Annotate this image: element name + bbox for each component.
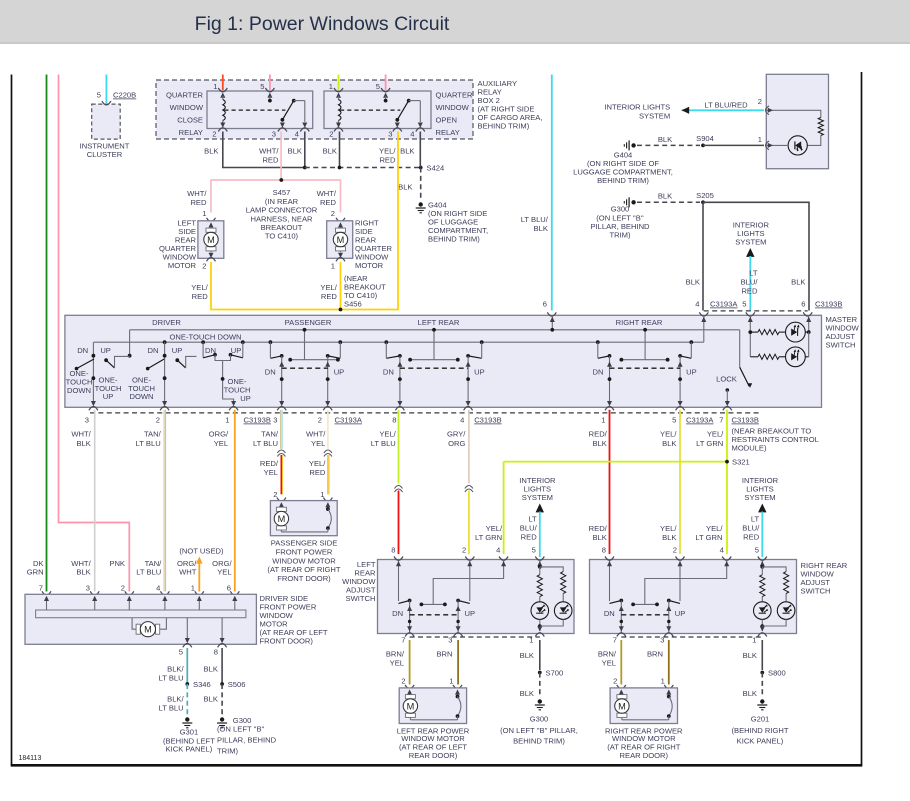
svg-text:LT BLU: LT BLU bbox=[136, 568, 161, 577]
svg-text:1: 1 bbox=[225, 416, 229, 425]
svg-text:WINDOW MOTOR: WINDOW MOTOR bbox=[612, 734, 676, 743]
svg-text:(IN REAR: (IN REAR bbox=[265, 197, 299, 206]
svg-text:MOTOR: MOTOR bbox=[355, 261, 384, 270]
svg-text:DN: DN bbox=[148, 346, 159, 355]
svg-text:3: 3 bbox=[448, 636, 452, 645]
svg-text:BLK: BLK bbox=[662, 439, 676, 448]
svg-text:3: 3 bbox=[388, 130, 392, 139]
svg-text:BLK/: BLK/ bbox=[167, 665, 184, 674]
svg-text:2: 2 bbox=[121, 584, 125, 593]
svg-text:S904: S904 bbox=[696, 134, 714, 143]
svg-text:BEHIND TRIM): BEHIND TRIM) bbox=[597, 176, 649, 185]
svg-text:MOTOR: MOTOR bbox=[168, 261, 197, 270]
svg-text:BRN/: BRN/ bbox=[598, 650, 617, 659]
svg-text:BLK: BLK bbox=[76, 568, 90, 577]
svg-text:(NOT USED): (NOT USED) bbox=[179, 547, 224, 556]
svg-text:3: 3 bbox=[273, 416, 277, 425]
svg-text:8: 8 bbox=[214, 647, 218, 656]
svg-text:2: 2 bbox=[331, 209, 335, 218]
svg-text:DN: DN bbox=[593, 368, 604, 377]
svg-text:1: 1 bbox=[661, 677, 665, 686]
svg-text:C3193B: C3193B bbox=[244, 416, 271, 425]
svg-text:WHT/: WHT/ bbox=[187, 189, 207, 198]
svg-text:LT: LT bbox=[751, 515, 760, 524]
svg-text:LT BLU: LT BLU bbox=[371, 439, 396, 448]
svg-text:BREAKOUT: BREAKOUT bbox=[261, 223, 303, 232]
svg-text:UP: UP bbox=[465, 609, 476, 618]
svg-text:BLK: BLK bbox=[686, 278, 700, 287]
svg-text:BLK: BLK bbox=[76, 439, 90, 448]
svg-text:CLUSTER: CLUSTER bbox=[87, 150, 123, 159]
svg-text:GRY/: GRY/ bbox=[447, 430, 466, 439]
svg-text:WHT/: WHT/ bbox=[71, 430, 91, 439]
svg-text:LT GRN: LT GRN bbox=[475, 533, 502, 542]
svg-text:LT BLU/RED: LT BLU/RED bbox=[704, 101, 748, 110]
svg-text:YEL/: YEL/ bbox=[660, 430, 677, 439]
svg-text:5: 5 bbox=[97, 91, 101, 100]
svg-text:DOWN: DOWN bbox=[67, 386, 91, 395]
svg-text:3: 3 bbox=[85, 416, 89, 425]
svg-text:1: 1 bbox=[601, 416, 605, 425]
svg-text:BLK: BLK bbox=[658, 135, 672, 144]
svg-text:BEHIND TRIM): BEHIND TRIM) bbox=[513, 737, 565, 746]
svg-text:C3193A: C3193A bbox=[710, 300, 738, 309]
svg-text:2: 2 bbox=[401, 677, 405, 686]
svg-text:RED/: RED/ bbox=[260, 459, 279, 468]
svg-text:YEL/: YEL/ bbox=[706, 524, 723, 533]
svg-text:2: 2 bbox=[202, 262, 206, 271]
svg-text:WHT/: WHT/ bbox=[259, 147, 279, 156]
svg-text:REAR DOOR): REAR DOOR) bbox=[409, 751, 458, 760]
svg-text:1: 1 bbox=[191, 584, 195, 593]
svg-text:DN: DN bbox=[205, 346, 216, 355]
svg-text:KICK PANEL): KICK PANEL) bbox=[737, 737, 784, 746]
svg-text:YEL/: YEL/ bbox=[379, 147, 396, 156]
svg-text:RELAY: RELAY bbox=[179, 128, 203, 137]
svg-text:DN: DN bbox=[265, 368, 276, 377]
svg-text:ORG/: ORG/ bbox=[209, 430, 229, 439]
svg-text:2: 2 bbox=[673, 546, 677, 555]
svg-text:5: 5 bbox=[260, 82, 264, 91]
svg-text:BLK: BLK bbox=[204, 147, 218, 156]
svg-text:4: 4 bbox=[410, 130, 414, 139]
svg-text:4: 4 bbox=[156, 584, 160, 593]
svg-text:FRONT DOOR): FRONT DOOR) bbox=[277, 574, 331, 583]
svg-text:BLK: BLK bbox=[520, 651, 534, 660]
svg-text:TRIM): TRIM) bbox=[217, 747, 239, 756]
svg-text:WHT/: WHT/ bbox=[306, 430, 326, 439]
svg-text:UP: UP bbox=[675, 609, 686, 618]
svg-text:BLK/: BLK/ bbox=[167, 695, 184, 704]
svg-text:2: 2 bbox=[758, 97, 762, 106]
svg-text:RED: RED bbox=[192, 292, 209, 301]
svg-text:YEL/: YEL/ bbox=[707, 430, 724, 439]
svg-text:WHT: WHT bbox=[179, 568, 197, 577]
svg-text:G201: G201 bbox=[751, 715, 770, 724]
svg-text:M: M bbox=[337, 235, 345, 245]
svg-text:LT GRN: LT GRN bbox=[695, 533, 722, 542]
svg-text:UP: UP bbox=[103, 392, 114, 401]
svg-text:YEL/: YEL/ bbox=[320, 283, 337, 292]
svg-text:LT BLU: LT BLU bbox=[159, 674, 184, 683]
svg-text:7: 7 bbox=[719, 416, 723, 425]
svg-text:7: 7 bbox=[613, 636, 617, 645]
svg-text:RED: RED bbox=[521, 533, 538, 542]
svg-text:S800: S800 bbox=[768, 669, 786, 678]
svg-text:BLK: BLK bbox=[592, 533, 606, 542]
svg-text:OPEN: OPEN bbox=[436, 116, 458, 125]
svg-text:PILLAR, BEHIND: PILLAR, BEHIND bbox=[217, 736, 277, 745]
svg-text:BLK: BLK bbox=[592, 439, 606, 448]
svg-text:BLK: BLK bbox=[534, 224, 548, 233]
svg-text:1: 1 bbox=[202, 209, 206, 218]
svg-text:YEL/: YEL/ bbox=[309, 459, 326, 468]
svg-text:BLK: BLK bbox=[791, 278, 805, 287]
svg-text:BLK: BLK bbox=[204, 695, 218, 704]
svg-text:1: 1 bbox=[449, 677, 453, 686]
svg-text:G301: G301 bbox=[180, 728, 199, 737]
svg-text:UP: UP bbox=[474, 368, 485, 377]
svg-text:8: 8 bbox=[602, 546, 606, 555]
svg-text:Fig 1: Power Windows Circuit: Fig 1: Power Windows Circuit bbox=[195, 13, 450, 35]
svg-text:FRONT POWER: FRONT POWER bbox=[276, 547, 333, 556]
svg-text:LT BLU/: LT BLU/ bbox=[521, 215, 549, 224]
svg-text:4: 4 bbox=[496, 546, 500, 555]
svg-text:BLK: BLK bbox=[520, 689, 534, 698]
svg-text:M: M bbox=[278, 514, 286, 524]
svg-text:4: 4 bbox=[720, 546, 724, 555]
svg-text:S456: S456 bbox=[344, 300, 362, 309]
svg-text:M: M bbox=[407, 701, 415, 711]
svg-text:M: M bbox=[144, 625, 152, 635]
svg-text:C3193B: C3193B bbox=[815, 300, 842, 309]
svg-text:6: 6 bbox=[801, 300, 805, 309]
svg-text:INTERIOR LIGHTS: INTERIOR LIGHTS bbox=[604, 103, 670, 112]
svg-text:7: 7 bbox=[401, 636, 405, 645]
svg-text:4: 4 bbox=[295, 130, 299, 139]
svg-text:5: 5 bbox=[672, 416, 676, 425]
svg-text:WINDOW: WINDOW bbox=[170, 103, 204, 112]
svg-text:RED: RED bbox=[379, 156, 396, 165]
svg-text:S506: S506 bbox=[228, 680, 246, 689]
svg-text:DN: DN bbox=[392, 609, 403, 618]
svg-text:YEL/: YEL/ bbox=[660, 524, 677, 533]
svg-text:UP: UP bbox=[172, 346, 183, 355]
svg-text:C220B: C220B bbox=[113, 91, 136, 100]
svg-text:YEL/: YEL/ bbox=[191, 283, 208, 292]
svg-text:YEL: YEL bbox=[264, 468, 278, 477]
svg-text:3: 3 bbox=[272, 130, 276, 139]
svg-text:1: 1 bbox=[752, 636, 756, 645]
svg-text:KICK PANEL): KICK PANEL) bbox=[166, 745, 213, 754]
svg-text:RELAY: RELAY bbox=[436, 128, 460, 137]
svg-text:YEL: YEL bbox=[214, 439, 228, 448]
svg-text:M: M bbox=[207, 235, 215, 245]
svg-text:WHT/: WHT/ bbox=[317, 189, 337, 198]
svg-text:C3193B: C3193B bbox=[732, 416, 759, 425]
svg-text:1: 1 bbox=[331, 262, 335, 271]
svg-text:2: 2 bbox=[156, 416, 160, 425]
svg-text:6: 6 bbox=[227, 584, 231, 593]
svg-text:DN: DN bbox=[383, 368, 394, 377]
svg-text:UP: UP bbox=[240, 394, 251, 403]
svg-text:RED/: RED/ bbox=[589, 524, 608, 533]
svg-text:UP: UP bbox=[686, 368, 697, 377]
svg-text:8: 8 bbox=[391, 546, 395, 555]
svg-text:DRIVER: DRIVER bbox=[152, 318, 181, 327]
svg-text:BLK: BLK bbox=[323, 147, 337, 156]
svg-text:(ON LEFT ''B'': (ON LEFT ''B'' bbox=[217, 725, 265, 734]
svg-text:SWITCH: SWITCH bbox=[826, 341, 856, 350]
svg-text:RED/: RED/ bbox=[589, 430, 608, 439]
svg-text:BRN: BRN bbox=[647, 650, 663, 659]
svg-text:DK: DK bbox=[33, 559, 44, 568]
svg-text:BLK: BLK bbox=[658, 192, 672, 201]
svg-text:2: 2 bbox=[613, 677, 617, 686]
svg-text:ORG/: ORG/ bbox=[212, 559, 232, 568]
svg-text:WHT/: WHT/ bbox=[71, 559, 91, 568]
svg-text:CLOSE: CLOSE bbox=[177, 116, 203, 125]
svg-text:S346: S346 bbox=[193, 680, 211, 689]
svg-text:S457: S457 bbox=[273, 188, 291, 197]
svg-text:BLU/: BLU/ bbox=[742, 524, 760, 533]
svg-text:(ON LEFT ''B'' PILLAR,: (ON LEFT ''B'' PILLAR, bbox=[500, 726, 578, 735]
svg-text:MODULE): MODULE) bbox=[732, 444, 767, 453]
svg-text:BLK: BLK bbox=[743, 689, 757, 698]
svg-text:5: 5 bbox=[532, 546, 536, 555]
svg-text:DN: DN bbox=[77, 346, 88, 355]
svg-text:ORG/: ORG/ bbox=[177, 559, 197, 568]
svg-text:LT GRN: LT GRN bbox=[696, 439, 723, 448]
svg-text:TRIM): TRIM) bbox=[609, 231, 631, 240]
svg-text:RED: RED bbox=[309, 468, 326, 477]
svg-text:LT: LT bbox=[528, 515, 537, 524]
svg-text:4: 4 bbox=[460, 416, 464, 425]
svg-text:LEFT REAR: LEFT REAR bbox=[418, 318, 460, 327]
svg-text:SYSTEM: SYSTEM bbox=[735, 238, 766, 247]
svg-text:GRN: GRN bbox=[27, 568, 44, 577]
svg-text:S700: S700 bbox=[546, 669, 564, 678]
svg-text:PNK: PNK bbox=[109, 559, 125, 568]
svg-text:YEL/: YEL/ bbox=[379, 430, 396, 439]
svg-text:TAN/: TAN/ bbox=[145, 559, 163, 568]
svg-text:5: 5 bbox=[742, 300, 746, 309]
svg-text:BEHIND TRIM): BEHIND TRIM) bbox=[478, 122, 530, 131]
svg-text:2: 2 bbox=[329, 130, 333, 139]
svg-text:TAN/: TAN/ bbox=[261, 430, 279, 439]
svg-text:4: 4 bbox=[695, 300, 699, 309]
svg-text:1: 1 bbox=[758, 135, 762, 144]
svg-text:BRN/: BRN/ bbox=[386, 650, 405, 659]
svg-text:2: 2 bbox=[318, 416, 322, 425]
svg-text:1: 1 bbox=[329, 82, 333, 91]
svg-text:RIGHT REAR: RIGHT REAR bbox=[616, 318, 663, 327]
svg-text:TAN/: TAN/ bbox=[144, 430, 162, 439]
svg-text:BRN: BRN bbox=[436, 650, 452, 659]
svg-text:WINDOW MOTOR: WINDOW MOTOR bbox=[401, 734, 465, 743]
svg-text:3: 3 bbox=[660, 636, 664, 645]
svg-text:YEL: YEL bbox=[217, 568, 231, 577]
svg-text:1: 1 bbox=[529, 636, 533, 645]
svg-text:RED: RED bbox=[321, 292, 338, 301]
svg-text:184113: 184113 bbox=[19, 755, 42, 762]
svg-text:RED: RED bbox=[320, 198, 337, 207]
svg-text:TO C410): TO C410) bbox=[265, 232, 299, 241]
svg-text:2: 2 bbox=[212, 130, 216, 139]
svg-text:WINDOW MOTOR: WINDOW MOTOR bbox=[272, 556, 336, 565]
svg-text:LT BLU: LT BLU bbox=[253, 439, 278, 448]
svg-text:UP: UP bbox=[231, 346, 242, 355]
svg-text:DN: DN bbox=[604, 609, 615, 618]
svg-text:QUARTER: QUARTER bbox=[166, 91, 204, 100]
svg-text:BLK: BLK bbox=[400, 147, 414, 156]
svg-text:RED: RED bbox=[741, 287, 758, 296]
svg-text:YEL/: YEL/ bbox=[486, 524, 503, 533]
svg-text:M: M bbox=[618, 701, 626, 711]
svg-text:5: 5 bbox=[376, 82, 380, 91]
svg-text:1: 1 bbox=[213, 82, 217, 91]
svg-text:BLK: BLK bbox=[743, 651, 757, 660]
svg-text:5: 5 bbox=[179, 647, 183, 656]
svg-text:PASSENGER SIDE: PASSENGER SIDE bbox=[271, 539, 338, 548]
svg-text:C3193A: C3193A bbox=[335, 416, 363, 425]
svg-text:LOCK: LOCK bbox=[716, 374, 737, 383]
svg-text:LT BLU: LT BLU bbox=[159, 704, 184, 713]
svg-text:BLU/: BLU/ bbox=[520, 524, 538, 533]
svg-text:SYSTEM: SYSTEM bbox=[744, 493, 775, 502]
svg-text:FRONT DOOR): FRONT DOOR) bbox=[260, 637, 314, 646]
svg-text:LT BLU: LT BLU bbox=[136, 439, 161, 448]
svg-text:BLK: BLK bbox=[662, 533, 676, 542]
svg-text:UP: UP bbox=[100, 346, 111, 355]
svg-text:YEL: YEL bbox=[602, 659, 616, 668]
svg-text:BLU/: BLU/ bbox=[741, 278, 759, 287]
svg-text:WINDOW: WINDOW bbox=[436, 103, 470, 112]
svg-text:C3193A: C3193A bbox=[686, 416, 714, 425]
svg-text:6: 6 bbox=[543, 300, 547, 309]
svg-text:BLK: BLK bbox=[398, 183, 412, 192]
svg-text:QUARTER: QUARTER bbox=[436, 91, 474, 100]
svg-text:YEL: YEL bbox=[311, 439, 325, 448]
svg-text:DOWN: DOWN bbox=[129, 392, 153, 401]
svg-text:SWITCH: SWITCH bbox=[801, 587, 831, 596]
svg-text:G300: G300 bbox=[611, 205, 630, 214]
svg-text:RED: RED bbox=[743, 533, 760, 542]
svg-text:SYSTEM: SYSTEM bbox=[639, 111, 670, 120]
svg-text:BEHIND TRIM): BEHIND TRIM) bbox=[428, 235, 480, 244]
svg-text:2: 2 bbox=[462, 546, 466, 555]
svg-text:S321: S321 bbox=[732, 458, 750, 467]
svg-text:ORG: ORG bbox=[448, 439, 465, 448]
svg-text:S205: S205 bbox=[696, 191, 714, 200]
svg-text:UP: UP bbox=[334, 368, 345, 377]
svg-text:SWITCH: SWITCH bbox=[346, 594, 376, 603]
svg-text:3: 3 bbox=[86, 584, 90, 593]
svg-text:BLK: BLK bbox=[288, 147, 302, 156]
svg-text:8: 8 bbox=[392, 416, 396, 425]
svg-text:YEL: YEL bbox=[390, 659, 404, 668]
svg-text:RED: RED bbox=[190, 198, 207, 207]
svg-text:SYSTEM: SYSTEM bbox=[522, 493, 553, 502]
svg-text:LAMP CONNECTOR: LAMP CONNECTOR bbox=[246, 206, 318, 215]
svg-text:REAR DOOR): REAR DOOR) bbox=[620, 751, 669, 760]
svg-text:PASSENGER: PASSENGER bbox=[285, 318, 332, 327]
svg-text:(BEHIND RIGHT: (BEHIND RIGHT bbox=[732, 726, 789, 735]
svg-text:S424: S424 bbox=[427, 164, 445, 173]
svg-text:C3193B: C3193B bbox=[474, 416, 501, 425]
svg-text:ONE-TOUCH DOWN: ONE-TOUCH DOWN bbox=[170, 332, 242, 341]
svg-text:G300: G300 bbox=[530, 715, 549, 724]
svg-text:BLK: BLK bbox=[204, 665, 218, 674]
svg-text:5: 5 bbox=[755, 546, 759, 555]
svg-text:RED: RED bbox=[262, 156, 279, 165]
svg-text:(AT REAR OF RIGHT: (AT REAR OF RIGHT bbox=[267, 565, 340, 574]
svg-text:LT: LT bbox=[749, 269, 758, 278]
